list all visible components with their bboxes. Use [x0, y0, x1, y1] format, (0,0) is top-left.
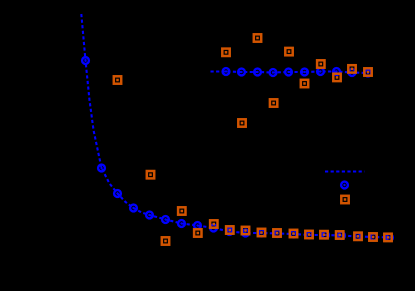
legend circle marker sample [341, 182, 348, 189]
series 3 square markers (upper scatter) [222, 34, 371, 126]
series 4 square markers (lower scatter) [114, 76, 392, 244]
legend dashed line sample [325, 170, 365, 172]
legend square marker sample [341, 196, 348, 203]
series 1 circle markers [82, 57, 393, 241]
series 1 dashed line (decaying curve) [81, 14, 389, 238]
series 2 circle markers [223, 68, 372, 76]
series 2 dashed line (horizontal) [211, 72, 369, 74]
